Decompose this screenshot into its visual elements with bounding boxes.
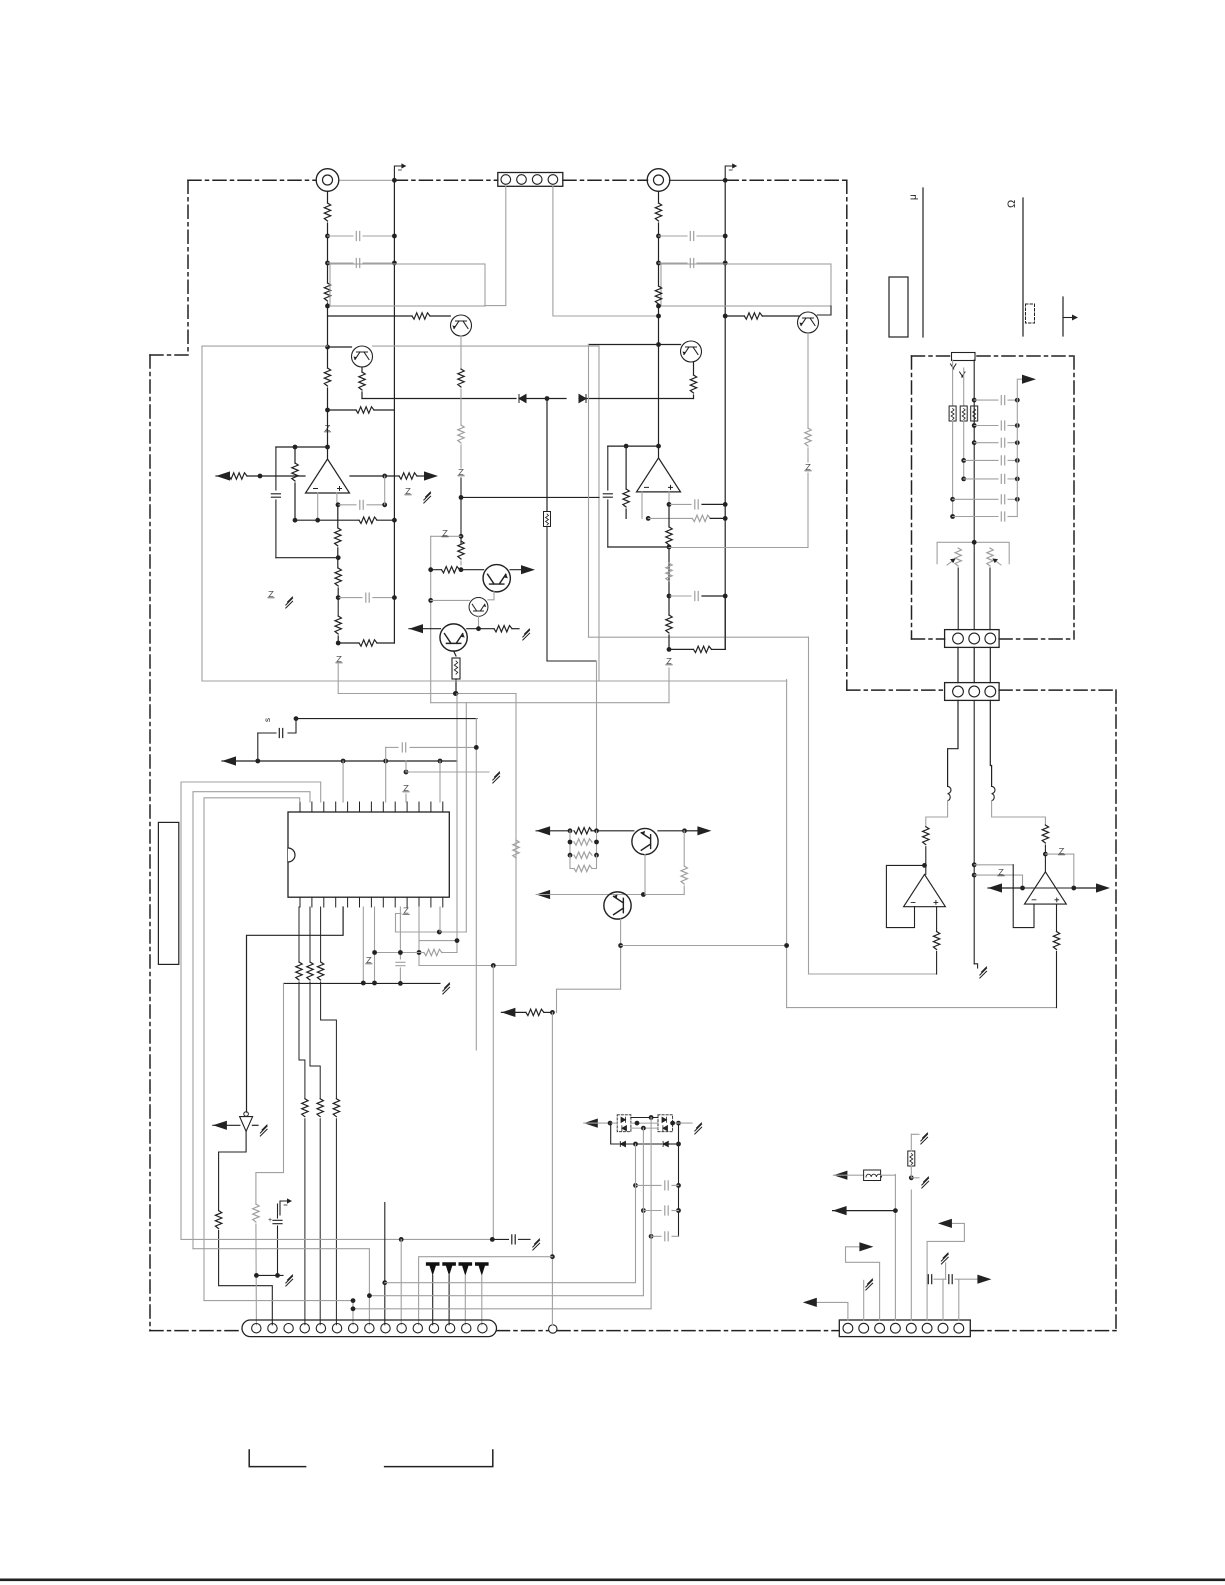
arrow row y=1210.6	[833, 1206, 847, 1215]
output row y=888	[988, 883, 1002, 892]
transistor Q3	[681, 341, 702, 362]
CN3 pin 2	[859, 1323, 869, 1333]
resistor row y=520.2	[293, 518, 298, 523]
junction dot	[336, 555, 341, 560]
junction dot	[325, 261, 330, 266]
vertical x=430.7	[430, 536, 432, 702]
tall connector rect left edge	[158, 822, 178, 964]
CN3 pin 3	[875, 1323, 885, 1333]
ground pair below feedback	[268, 591, 274, 597]
nested bus A	[181, 782, 321, 1239]
filter block dash-dot bottom edge seg2	[999, 638, 1074, 640]
arrow row y=1012.4	[501, 1008, 515, 1017]
CN-B pin2	[969, 686, 980, 697]
resistor R24	[666, 527, 672, 545]
junction dot	[459, 495, 464, 500]
x=1022.5 drop	[1022, 875, 1024, 888]
RCA jack J1 left channel	[316, 169, 339, 192]
CN2 pin 2	[268, 1324, 277, 1333]
transistor Q1	[352, 346, 373, 367]
resistor R10b x=338	[335, 568, 341, 586]
IC bottom col 2	[309, 907, 311, 962]
resistor RB	[1042, 825, 1048, 843]
svg-text:s: s	[263, 718, 272, 722]
op-amp IC2 right channel	[637, 458, 681, 492]
inductor L2	[992, 786, 995, 800]
CN-A pin2	[969, 633, 980, 644]
resistor R12 x=516	[513, 840, 519, 858]
boundary dash-dot top horizontal seg2	[394, 179, 497, 181]
svg-text:+: +	[268, 1217, 272, 1224]
x=786.6 vertical	[786, 680, 788, 1008]
transistor Q5	[483, 565, 510, 592]
junction dot	[922, 863, 927, 868]
capacitor C3 feedback	[271, 494, 280, 497]
x=684 resistor	[683, 831, 685, 866]
junction dot	[325, 408, 330, 413]
RCA jack J2 right channel	[647, 169, 670, 192]
junction dot	[656, 234, 661, 239]
boundary dash-dot top-left vertical	[187, 180, 189, 355]
junction dot	[258, 474, 263, 479]
cap row y=747	[386, 746, 398, 748]
CN1 pin 2	[517, 175, 527, 185]
x=493.3 drop	[492, 966, 494, 1240]
junction dot	[293, 445, 298, 450]
block vertical 1	[952, 360, 954, 406]
diode D10	[663, 1141, 668, 1146]
CN3 pin 6	[922, 1323, 932, 1333]
resistor R3 y=316	[412, 313, 430, 319]
tone board box L1 top edge left	[202, 345, 328, 347]
filter block dash-dot top edge seg2	[977, 355, 1074, 357]
boundary dash-dot right vertical	[1115, 690, 1117, 1331]
Q7 emitter	[454, 651, 456, 656]
junction dot	[667, 647, 672, 652]
boundary dash-dot bottom segment to 8pin connector	[557, 1330, 839, 1332]
electrolytic chain x=277.5	[280, 1198, 292, 1215]
branch y=497.4 to box edge	[461, 496, 599, 498]
svg-text:μ: μ	[908, 194, 919, 200]
CN3 pin 7	[938, 1323, 948, 1333]
zener mark x=338	[336, 656, 342, 662]
cluster drop B	[369, 1128, 643, 1296]
cluster wire inter	[631, 1122, 658, 1124]
junction dot	[972, 873, 977, 878]
resistor row y=643	[338, 642, 359, 644]
resistor R4 x=327 y=368	[324, 368, 330, 386]
CN3 pin2 ground	[863, 1280, 865, 1320]
transistor Q7	[440, 624, 467, 651]
resistor on Q4 chain	[807, 334, 809, 429]
IC bottom col 3	[320, 907, 322, 962]
boundary dash-dot top horizontal seg4	[725, 179, 847, 181]
riser x=440 to y=932	[439, 907, 441, 932]
junction dot	[656, 304, 661, 309]
IC top pin stubs	[299, 802, 301, 812]
cap row y=1185.4	[633, 1183, 638, 1188]
arrow row y=628.7	[409, 624, 423, 633]
resistor R22 x=658	[655, 286, 661, 304]
legend tall rectangle	[889, 277, 908, 337]
W2 wire y=702.7	[431, 702, 669, 704]
pin7 ground stub	[945, 1263, 947, 1279]
diode D9	[620, 1141, 625, 1146]
junction dot	[336, 595, 341, 600]
CN3 pin 1	[843, 1323, 853, 1333]
wire y=410 resistor R5	[328, 409, 357, 411]
wire y=536.3	[459, 534, 464, 539]
CN-A to CN-B wires	[957, 647, 959, 682]
resistor R1 on left main vertical	[324, 203, 330, 221]
op-amp IC1 left channel	[306, 459, 350, 493]
x=588 vertical	[588, 345, 590, 638]
riser x=406	[405, 761, 407, 772]
LED D6	[442, 1262, 456, 1276]
block center vertical	[973, 360, 975, 630]
feedback drop x=384.7	[382, 474, 387, 479]
arrow right	[685, 830, 699, 832]
resistor R16 y=628.7	[494, 626, 512, 632]
junction dot	[454, 691, 459, 696]
CN3 pin6 step arrow	[927, 1223, 964, 1320]
LED D5	[426, 1262, 440, 1276]
boxed resistor R17	[452, 658, 460, 679]
CN-B pin1	[953, 686, 964, 697]
cap row b2	[972, 423, 977, 428]
boxed resistor x=911	[908, 1151, 915, 1166]
boundary dash-dot right channel vertical x=847	[846, 180, 848, 690]
gray tone box right channel	[661, 264, 831, 306]
cap row b3	[972, 440, 977, 445]
bottom rule	[0, 1579, 1225, 1582]
transistor TQ2	[604, 892, 631, 919]
CN2 pin 15	[478, 1324, 487, 1333]
IC4 plus chain	[936, 907, 938, 932]
cap row b1	[972, 398, 977, 403]
junction dot	[656, 261, 661, 266]
junction dot	[550, 1254, 555, 1259]
cap row b7	[950, 514, 955, 519]
CN1 pin 3	[532, 175, 542, 185]
junction dot	[428, 567, 433, 572]
block vertical 2	[963, 368, 965, 406]
junction dot	[550, 1010, 555, 1015]
resistor R10c x=338	[337, 598, 339, 616]
Q6 emitter to row	[478, 616, 480, 628]
boundary dash-dot left vertical	[149, 355, 151, 1331]
cluster wire mid	[631, 1127, 658, 1129]
resistor chain x=256 from ground bus	[256, 983, 284, 1204]
inverter chain	[219, 1131, 247, 1210]
connector CN-B 3pin	[945, 683, 1000, 701]
ground right of inverter	[252, 1124, 258, 1126]
wire through Q5 to arrow	[461, 569, 484, 571]
fuse box on filter block top edge	[952, 353, 976, 361]
IC5 feedback left	[1013, 865, 1034, 928]
tone board box L1 right edge	[598, 346, 600, 681]
PC1 diodes	[621, 1117, 626, 1122]
pin9 riser	[384, 1203, 386, 1325]
block v1 lower	[952, 421, 954, 517]
CN2 pin 12	[429, 1324, 438, 1333]
CN2 pin 7	[349, 1324, 358, 1333]
wire y=446 opamp2 top	[608, 445, 659, 447]
CN3 pin 4	[891, 1323, 901, 1333]
zener symbol on left main	[324, 425, 330, 431]
IC4 feedback	[886, 865, 924, 927]
resistor R10 x=337	[335, 528, 341, 546]
CN1 pin 1	[501, 175, 511, 185]
wire y=875.1 with trim	[974, 874, 1022, 876]
inverter gate with bubble	[240, 1117, 253, 1132]
diode D3 on Q2 chain	[458, 469, 464, 475]
cap row b5	[961, 477, 966, 482]
junction dot	[325, 304, 330, 309]
Q5-Q6 link	[488, 592, 494, 600]
connector CN1 pin4 drop wire gray	[553, 186, 659, 316]
boundary dash-dot mid horizontal right of CN-A2	[999, 689, 1116, 691]
x=808.5 vertical	[808, 637, 810, 974]
y=681 long gray bus	[202, 680, 787, 682]
TQ2 branch to 786	[618, 943, 623, 948]
gray tone box left channel	[330, 264, 485, 306]
arrow row y=830.8	[536, 826, 550, 835]
resistor R2 vertical x=327 y=283	[324, 283, 330, 301]
wire y=600.4 to Q6	[431, 599, 470, 601]
filter block dash-dot left edge	[911, 356, 913, 639]
electrolytic cap	[279, 729, 282, 738]
nested bus B	[193, 792, 310, 1249]
left feedback vertical x=276	[275, 447, 277, 490]
riser to IC pin x=385.7 (top)	[385, 761, 387, 802]
resistor R9 y=476	[394, 475, 399, 477]
wire y=940.6	[419, 940, 457, 942]
CN-B pin3	[985, 686, 996, 697]
legend bracket 1	[249, 1450, 305, 1467]
Q1 emitter resistor R6	[361, 367, 363, 372]
bank row1 resistor on arrow row	[574, 828, 592, 834]
cluster drop C	[353, 1118, 651, 1309]
CN2 pin 8	[365, 1324, 374, 1333]
cap row y=263 right	[659, 262, 688, 264]
arrow left from inverter	[213, 1121, 227, 1130]
y=637.2 gray wire	[589, 636, 809, 638]
block v2 lower	[963, 421, 965, 479]
right main vertical from RCA2	[658, 191, 660, 203]
long wire y=398 with diodes	[362, 398, 516, 400]
wire W1 y=693.5	[338, 693, 516, 695]
junction dot	[656, 314, 661, 319]
wire y=718.6	[296, 718, 477, 720]
connector CN2 16-pin	[242, 1320, 497, 1337]
CN3 pin7 cap row	[942, 1279, 944, 1320]
boxed resistor R18 x=547	[546, 399, 548, 512]
boundary dash-dot bottom right segment	[971, 1330, 1117, 1332]
tone box right drop x=831	[817, 306, 831, 315]
diode D4	[805, 464, 811, 470]
diode D1	[519, 395, 526, 403]
resistor bank row4	[574, 865, 592, 871]
zener x=669	[666, 658, 672, 664]
wire RCA2 to right rail	[670, 179, 726, 181]
L1 to opamp A	[926, 800, 948, 826]
pot 2	[987, 548, 993, 566]
junction dot	[392, 234, 397, 239]
IC2 minus drop	[641, 492, 643, 519]
cap row y=596	[667, 594, 672, 599]
boundary dash-dot jog at y=355	[150, 354, 188, 356]
pot 1	[955, 548, 961, 566]
CN-B drops	[948, 700, 958, 786]
junction dot	[641, 892, 646, 897]
IC bottom riser x=401 with cap	[399, 907, 401, 959]
op-amp IC4	[904, 874, 946, 906]
IC1 plus chain down	[337, 505, 339, 528]
junction dot	[723, 314, 728, 319]
legend dashed small rect	[1026, 304, 1035, 323]
bus B staircase to pin8	[193, 1249, 369, 1325]
row right of TQ1	[658, 830, 685, 832]
bank feeder x=596.5	[596, 661, 598, 831]
vertical x=338 lower gray	[337, 664, 339, 694]
Q2 emitter resistor	[460, 336, 462, 369]
center ground	[974, 964, 977, 968]
cap row y=1236.3	[649, 1234, 654, 1239]
wire to W1	[455, 679, 457, 694]
tone board box L1 left edge	[201, 346, 203, 681]
IC bottom riser x=363	[362, 907, 364, 983]
feedback cap C over IC2	[607, 446, 609, 490]
boxed resistor FB1	[949, 406, 956, 421]
svg-text:Ω: Ω	[1006, 200, 1018, 208]
CN3 pin 5	[906, 1323, 916, 1333]
junction dot	[428, 598, 433, 603]
riser to IC pin x=343	[342, 761, 344, 802]
resistor R7 x=295	[294, 447, 296, 463]
cluster right vertical	[678, 1123, 680, 1236]
IC1 output riser	[327, 447, 329, 459]
IC2 plus chain	[668, 504, 670, 527]
cap row y=504.8	[336, 502, 341, 507]
CN3 pin 8	[954, 1323, 964, 1333]
vertical x=516 gray	[515, 694, 517, 966]
junction dot	[1043, 852, 1048, 857]
chassis ground symbol above left rail	[394, 163, 406, 180]
junction dot	[972, 862, 977, 867]
junction dot	[545, 396, 550, 401]
junction dot	[453, 691, 458, 696]
y=965.5 wire	[419, 965, 516, 967]
x=476.3 drop	[475, 719, 477, 1050]
bus A bottom wire y=1239.4	[181, 1238, 492, 1240]
resistor R21	[655, 203, 661, 221]
legend vertical line with mu	[922, 188, 924, 337]
resistor row y=952.5	[375, 952, 424, 954]
IC5 plus chain	[1056, 904, 1058, 931]
wire y=932	[396, 931, 467, 933]
CN2 pin 3	[284, 1324, 293, 1333]
tone board box L1 top edge right	[373, 345, 600, 347]
photocoupler PC2 dashed box	[658, 1115, 673, 1132]
wire y=347 to Q1	[328, 346, 352, 348]
riser x=385.7 to cap row	[385, 747, 387, 761]
x=669 gray to W2	[668, 668, 670, 703]
CN3 pin8 riser	[958, 1279, 960, 1320]
connector CN3 8-pin	[839, 1320, 970, 1337]
LED D8	[475, 1262, 489, 1276]
CN2 pin 6	[332, 1324, 341, 1333]
cap row b4	[961, 458, 966, 463]
nested bus C	[204, 798, 300, 1301]
legend short line with arrow	[1062, 297, 1064, 336]
cap chain top-left	[288, 719, 296, 733]
boundary dash-dot bottom mid segment	[497, 1330, 549, 1332]
pot drops	[957, 568, 959, 630]
transistor Q4	[798, 312, 819, 333]
capacitor C1 row y=236	[328, 235, 354, 237]
wire y=316 to Q2	[328, 315, 413, 317]
wire y=557.7	[276, 557, 338, 559]
cluster wire left	[610, 1122, 617, 1124]
zener stub	[396, 914, 402, 933]
filter block dash-dot bottom edge seg1	[912, 638, 945, 640]
cluster left loop	[611, 1123, 619, 1144]
IC1 minus input drop	[317, 493, 319, 520]
CN-A pin3	[985, 633, 996, 644]
boxed resistor FB3	[971, 406, 978, 421]
CN2 pin 1	[252, 1324, 261, 1333]
ground bus y=983	[284, 982, 441, 984]
LED D7	[459, 1262, 473, 1276]
Q3 emitter resistor	[693, 362, 695, 375]
wire right of IC1 y=476	[350, 475, 394, 477]
PC2 diodes	[662, 1117, 667, 1122]
IC1 plus input drop	[336, 493, 338, 505]
connector CN1 pin1 drop wire gray	[485, 186, 506, 305]
pin10 drop	[400, 1239, 402, 1324]
riser x=440	[439, 761, 441, 802]
IC bottom col 1	[298, 907, 300, 962]
res chain x=669 low	[668, 596, 670, 615]
right rail x=725.2	[724, 180, 726, 649]
filter block dash-dot right edge	[1073, 356, 1075, 639]
output arrow row y=476	[216, 471, 230, 480]
row continues right	[467, 628, 494, 630]
junction dot	[723, 502, 728, 507]
Q2 chain resistor R13	[458, 425, 464, 443]
cluster drop A	[385, 1144, 636, 1283]
CN1 pin 4	[548, 175, 558, 185]
ground right	[911, 1177, 919, 1179]
bus C staircase to pin7	[204, 1301, 353, 1325]
cap row b6	[950, 497, 955, 502]
W2 drop x=466.3	[465, 703, 467, 932]
legend vertical line with ohm	[1022, 198, 1024, 336]
cluster arrow left	[584, 1119, 598, 1128]
boundary dash-dot bottom left segment	[150, 1330, 242, 1332]
resistor R23	[625, 446, 627, 489]
TQ2 chain down	[557, 919, 621, 1012]
resistor R14 x=461	[458, 541, 464, 559]
y=1007.6 wire to opamp B	[787, 1007, 1057, 1009]
block wire arrows top	[951, 364, 957, 369]
resistor bank row3	[574, 852, 592, 858]
ground pair right of rail	[405, 488, 411, 494]
junction dot	[325, 445, 330, 450]
photocoupler PC1 dashed box	[617, 1115, 631, 1132]
IC IC3 main body	[288, 812, 449, 897]
